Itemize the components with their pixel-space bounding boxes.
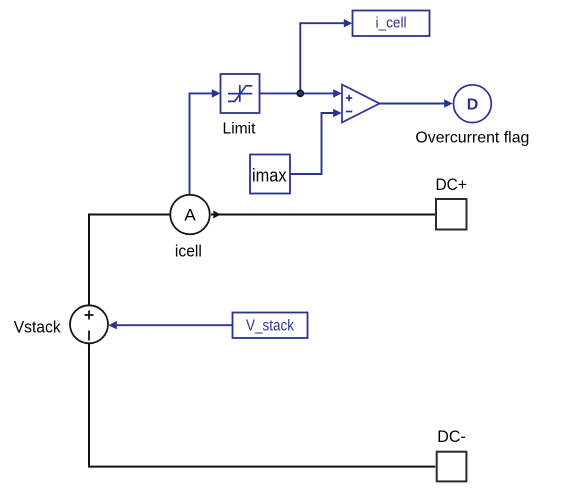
svg-text:Overcurrent flag: Overcurrent flag [415, 130, 529, 147]
svg-text:D: D [467, 97, 479, 114]
svg-text:icell: icell [175, 242, 202, 261]
svg-text:DC+: DC+ [435, 175, 467, 194]
svg-text:Limit: Limit [223, 121, 257, 138]
svg-text:i_cell: i_cell [376, 16, 407, 32]
svg-text:DC-: DC- [437, 427, 466, 446]
svg-text:imax: imax [252, 165, 287, 186]
svg-text:V_stack: V_stack [246, 318, 294, 335]
svg-text:Vstack: Vstack [14, 318, 61, 337]
svg-text:A: A [184, 206, 196, 225]
